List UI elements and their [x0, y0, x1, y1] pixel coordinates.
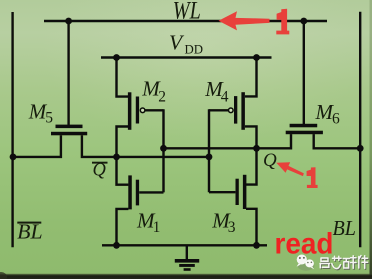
node dot Qbar — [113, 154, 120, 161]
svg-text:Q: Q — [263, 150, 277, 171]
wire inverter1 gate vertical — [162, 109, 164, 192]
wire WL to M5 gate — [67, 21, 69, 125]
wire M2 gate lead — [145, 109, 163, 111]
red numeral 1 (bottom) — [307, 167, 318, 188]
node dot Q — [253, 145, 260, 152]
transistor M6 gate bar — [290, 124, 318, 128]
node dot inv1 gate — [160, 145, 167, 152]
node dot M1/ground — [113, 242, 120, 249]
wire BLbar bit line (left) — [11, 12, 13, 247]
red arrow at node Q — [276, 162, 304, 176]
transistor M4 channel bar — [241, 92, 245, 130]
svg-text:BL: BL — [333, 216, 357, 240]
wire BLbar to M5 left leg — [13, 135, 61, 157]
node dot BL junction — [357, 145, 364, 152]
wire M3 source to ground — [246, 209, 257, 246]
node dot VDD/M2 — [113, 54, 120, 61]
wire M1 gate lead — [139, 191, 163, 193]
wire M4 source to VDD — [245, 58, 257, 97]
red numeral 1 (top) — [276, 9, 289, 35]
wire M4 gate lead — [209, 109, 228, 111]
transistor M3 gate bar — [236, 179, 239, 205]
wire M1 source to ground — [117, 209, 129, 245]
bottom-left corner smudge — [0, 272, 7, 279]
wire Q rail (inv1 gates to Q node to M6) — [164, 134, 292, 148]
svg-text:WL: WL — [173, 0, 201, 24]
wire M6 right leg to BL — [314, 134, 361, 148]
wire M2 drain / Qbar column upper — [117, 127, 129, 185]
ground symbol stem — [186, 245, 188, 259]
node dot M3/ground — [253, 242, 260, 249]
right edge shading — [370, 0, 372, 279]
node dot VDD/M4 — [253, 54, 260, 61]
PMOS bubble M2 — [140, 108, 145, 113]
svg-text:6: 6 — [332, 110, 340, 127]
wire M3 gate lead — [209, 191, 235, 193]
node dot BLbar junction — [10, 154, 17, 161]
watermark text qixin yingjian (drawn strokes) — [321, 257, 369, 270]
node dot WL/M6 — [300, 18, 307, 25]
transistor M2 channel bar — [128, 92, 131, 130]
PMOS bubble M4 — [229, 108, 234, 113]
node dot inv2 gate — [206, 154, 213, 161]
wire VDD rail — [101, 56, 272, 58]
red arrow on WL — [219, 11, 270, 30]
svg-text:4: 4 — [221, 89, 229, 106]
transistor M1 gate bar — [136, 180, 139, 206]
wire M5 right leg to Qbar rail — [82, 135, 209, 157]
transistor M3 channel bar — [243, 175, 247, 209]
wire M4 drain / Q column — [245, 126, 257, 184]
wire inverter2 gate vertical — [208, 109, 210, 192]
wire M2 source to VDD — [117, 58, 129, 97]
transistor M4 gate bar — [234, 96, 237, 124]
transistor M5 channel bar — [51, 132, 87, 136]
transistor M1 channel bar — [128, 175, 132, 209]
watermark wechat icon — [297, 255, 315, 271]
transistor M5 gate bar — [56, 125, 83, 129]
wire BL bit line (right) — [359, 12, 361, 247]
wire WL (word line) — [44, 20, 327, 22]
svg-text:2: 2 — [158, 88, 166, 105]
wire ground rail — [102, 244, 267, 246]
svg-text:5: 5 — [45, 110, 53, 127]
ground symbol bars — [175, 259, 199, 263]
bottom dark bar — [0, 273, 372, 279]
svg-text:1: 1 — [153, 219, 161, 236]
transistor M6 channel bar — [286, 131, 323, 135]
node dot WL/M5 — [65, 18, 72, 25]
svg-text:DD: DD — [185, 42, 204, 56]
transistor M2 gate bar — [136, 97, 139, 124]
svg-text:3: 3 — [228, 219, 236, 236]
wire WL to M6 gate — [303, 21, 305, 125]
